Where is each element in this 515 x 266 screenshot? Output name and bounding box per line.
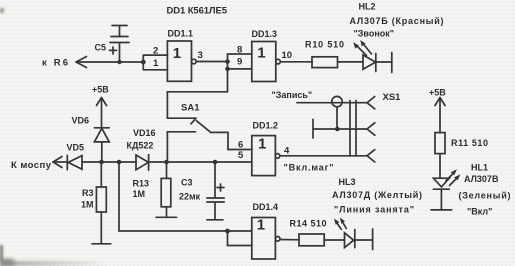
- wire HL2 to rail bar: [376, 61, 392, 63]
- svg-text:HL1: HL1: [471, 163, 488, 173]
- wire DD1.3 bracket rail to SA1: [167, 92, 227, 118]
- svg-text:VD5: VD5: [67, 143, 85, 153]
- svg-text:АЛ307Б (Красный): АЛ307Б (Красный): [350, 16, 444, 26]
- diode VD16: [127, 128, 156, 170]
- svg-text:"Звонок": "Звонок": [354, 29, 395, 39]
- plug contact circle: [332, 96, 342, 106]
- svg-text:1М: 1М: [133, 189, 146, 199]
- resistor R13: [133, 162, 177, 217]
- LED HL3: [334, 218, 355, 248]
- svg-text:3: 3: [198, 50, 203, 61]
- svg-text:C5: C5: [95, 43, 107, 53]
- svg-text:DD1.2: DD1.2: [253, 121, 279, 131]
- terminal bar middle contact: [312, 119, 314, 138]
- svg-text:АЛ307В: АЛ307В: [464, 174, 499, 184]
- svg-text:АЛ307Д (Желтый): АЛ307Д (Желтый): [332, 190, 422, 200]
- connector XS1 body: [350, 101, 356, 157]
- svg-text:HL2: HL2: [359, 2, 376, 12]
- wire middle contact: [313, 128, 367, 130]
- wire HL3 to bar: [355, 239, 373, 241]
- wire HL1 to bottom bar: [440, 189, 442, 210]
- wire R11 to HL1: [439, 154, 441, 179]
- svg-text:+5В: +5В: [92, 85, 109, 95]
- junction dot C5/top wire: [117, 60, 121, 64]
- svg-text:+5В: +5В: [429, 88, 446, 98]
- LED HL2: [353, 40, 376, 72]
- scan artifact bottom-left band: [0, 261, 110, 266]
- resistor R10: [305, 40, 344, 68]
- diode VD5: [67, 143, 85, 170]
- junction dot C3: [213, 160, 218, 165]
- wire pin 4 to XS1 bottom contact: [280, 155, 367, 157]
- svg-text:к R6: к R6: [42, 58, 68, 69]
- svg-text:1: 1: [258, 136, 266, 153]
- wire: [53, 161, 67, 163]
- junction dot SA1/R13: [164, 160, 169, 165]
- wire DD1.4 out to R14: [280, 239, 299, 241]
- op-amp gate DD1.1: [167, 29, 196, 82]
- svg-text:R14 510: R14 510: [290, 219, 327, 229]
- svg-text:R11 510: R11 510: [451, 138, 488, 148]
- scan artifact left edge mark: [0, 245, 3, 261]
- op-amp gate DD1.3: [252, 29, 281, 82]
- node К R6 (left arrow terminal): [42, 57, 87, 69]
- wire DD1.1 input bracket: [143, 55, 167, 70]
- svg-text:XS1: XS1: [383, 92, 402, 103]
- capacitor C5: [95, 26, 130, 63]
- svg-text:DD1 К561ЛЕ5: DD1 К561ЛЕ5: [167, 6, 228, 17]
- wire R14 to HL3: [324, 239, 344, 241]
- junction dot VD6/R3: [99, 160, 104, 165]
- op-amp gate DD1.4: [252, 202, 280, 259]
- svg-text:"Запись": "Запись": [272, 90, 313, 100]
- wire lower rail to DD1.4 inputs: [119, 162, 252, 246]
- junction dot DD1.1 out: [225, 59, 230, 64]
- wire R10 to HL2: [338, 61, 364, 63]
- terminal bar: [431, 209, 452, 211]
- diode VD6: [72, 116, 110, 163]
- wire: [82, 161, 136, 163]
- junction dot DD1.1 input bracket: [141, 60, 146, 65]
- svg-text:КД522: КД522: [127, 141, 154, 151]
- wire DD1.3 input bracket: [228, 54, 252, 92]
- svg-text:VD16: VD16: [133, 128, 156, 138]
- resistor R11: [435, 133, 488, 154]
- svg-text:DD1.4: DD1.4: [253, 202, 279, 212]
- wire circle to middle contact: [336, 107, 338, 129]
- svg-text:6: 6: [238, 140, 243, 151]
- svg-text:К моспу: К моспу: [11, 160, 52, 171]
- svg-text:1М: 1М: [81, 200, 94, 210]
- switch SA1: [167, 103, 228, 150]
- terminal bar: [391, 53, 393, 73]
- resistor R3: [81, 162, 111, 244]
- svg-text:(Зеленый): (Зеленый): [459, 191, 511, 201]
- svg-text:DD1.1: DD1.1: [168, 29, 194, 39]
- wire Запись to XS1 top contact: [297, 102, 367, 104]
- wire top node to DD1.1 inputs: [76, 61, 143, 63]
- contact chevron bottom: [367, 150, 375, 162]
- LED HL1: [433, 169, 460, 189]
- junction dot: [335, 127, 340, 132]
- svg-text:1: 1: [257, 217, 265, 234]
- svg-text:"Вкл": "Вкл": [467, 207, 492, 217]
- wire SA1 to main wire: [166, 132, 168, 162]
- svg-text:R3: R3: [82, 188, 94, 198]
- svg-text:HL3: HL3: [339, 177, 356, 187]
- scan artifact top-left tick: [0, 8, 4, 13]
- node К моспу (left arrow terminal): [11, 157, 62, 172]
- junction dot lower rail: [117, 160, 122, 165]
- resistor R14: [290, 219, 327, 246]
- svg-text:8: 8: [237, 45, 242, 56]
- wire pin 10 to R10: [280, 61, 312, 63]
- svg-text:"Линия занята": "Линия занята": [334, 205, 414, 215]
- svg-text:R10 510: R10 510: [305, 40, 344, 50]
- svg-text:R13: R13: [133, 179, 150, 189]
- contact chevron top: [367, 97, 375, 109]
- svg-text:C3: C3: [181, 178, 193, 188]
- svg-text:9: 9: [237, 57, 242, 68]
- svg-text:VD6: VD6: [72, 116, 90, 126]
- svg-text:5: 5: [238, 150, 244, 161]
- junction dot pin9: [225, 67, 230, 72]
- op-amp gate DD1.2: [252, 121, 280, 176]
- svg-text:4: 4: [284, 146, 290, 157]
- svg-text:1: 1: [257, 45, 265, 62]
- svg-text:1: 1: [153, 58, 159, 69]
- terminal bar: [372, 229, 374, 250]
- power +5В right: [429, 88, 446, 133]
- junction dot DD1.4 bracket: [225, 229, 230, 234]
- svg-text:2: 2: [153, 46, 158, 57]
- svg-text:DD1.3: DD1.3: [252, 29, 278, 39]
- svg-text:"Вкл.маг": "Вкл.маг": [284, 163, 334, 173]
- capacitor C3: [179, 162, 224, 220]
- svg-text:SA1: SA1: [181, 103, 200, 114]
- power +5В left: [92, 85, 109, 128]
- wire main to pin 5: [149, 161, 252, 163]
- svg-text:1: 1: [173, 45, 181, 62]
- wire pin 6: [228, 149, 252, 151]
- svg-text:22мк: 22мк: [179, 192, 201, 202]
- contact chevron middle: [367, 123, 375, 135]
- wire DD1.1 output to DD1.3: [196, 61, 227, 63]
- svg-text:10: 10: [282, 50, 293, 61]
